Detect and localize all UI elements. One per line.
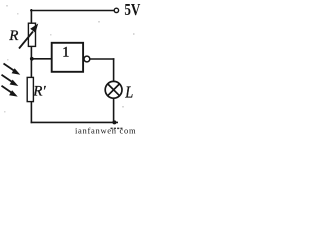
svg-text:R: R	[8, 28, 18, 44]
svg-text:5V: 5V	[124, 0, 140, 19]
svg-text:ianfanwen com: ianfanwen com	[75, 125, 136, 135]
svg-text:L: L	[124, 83, 133, 102]
svg-text:R′: R′	[32, 83, 46, 99]
svg-text:1: 1	[62, 44, 69, 60]
